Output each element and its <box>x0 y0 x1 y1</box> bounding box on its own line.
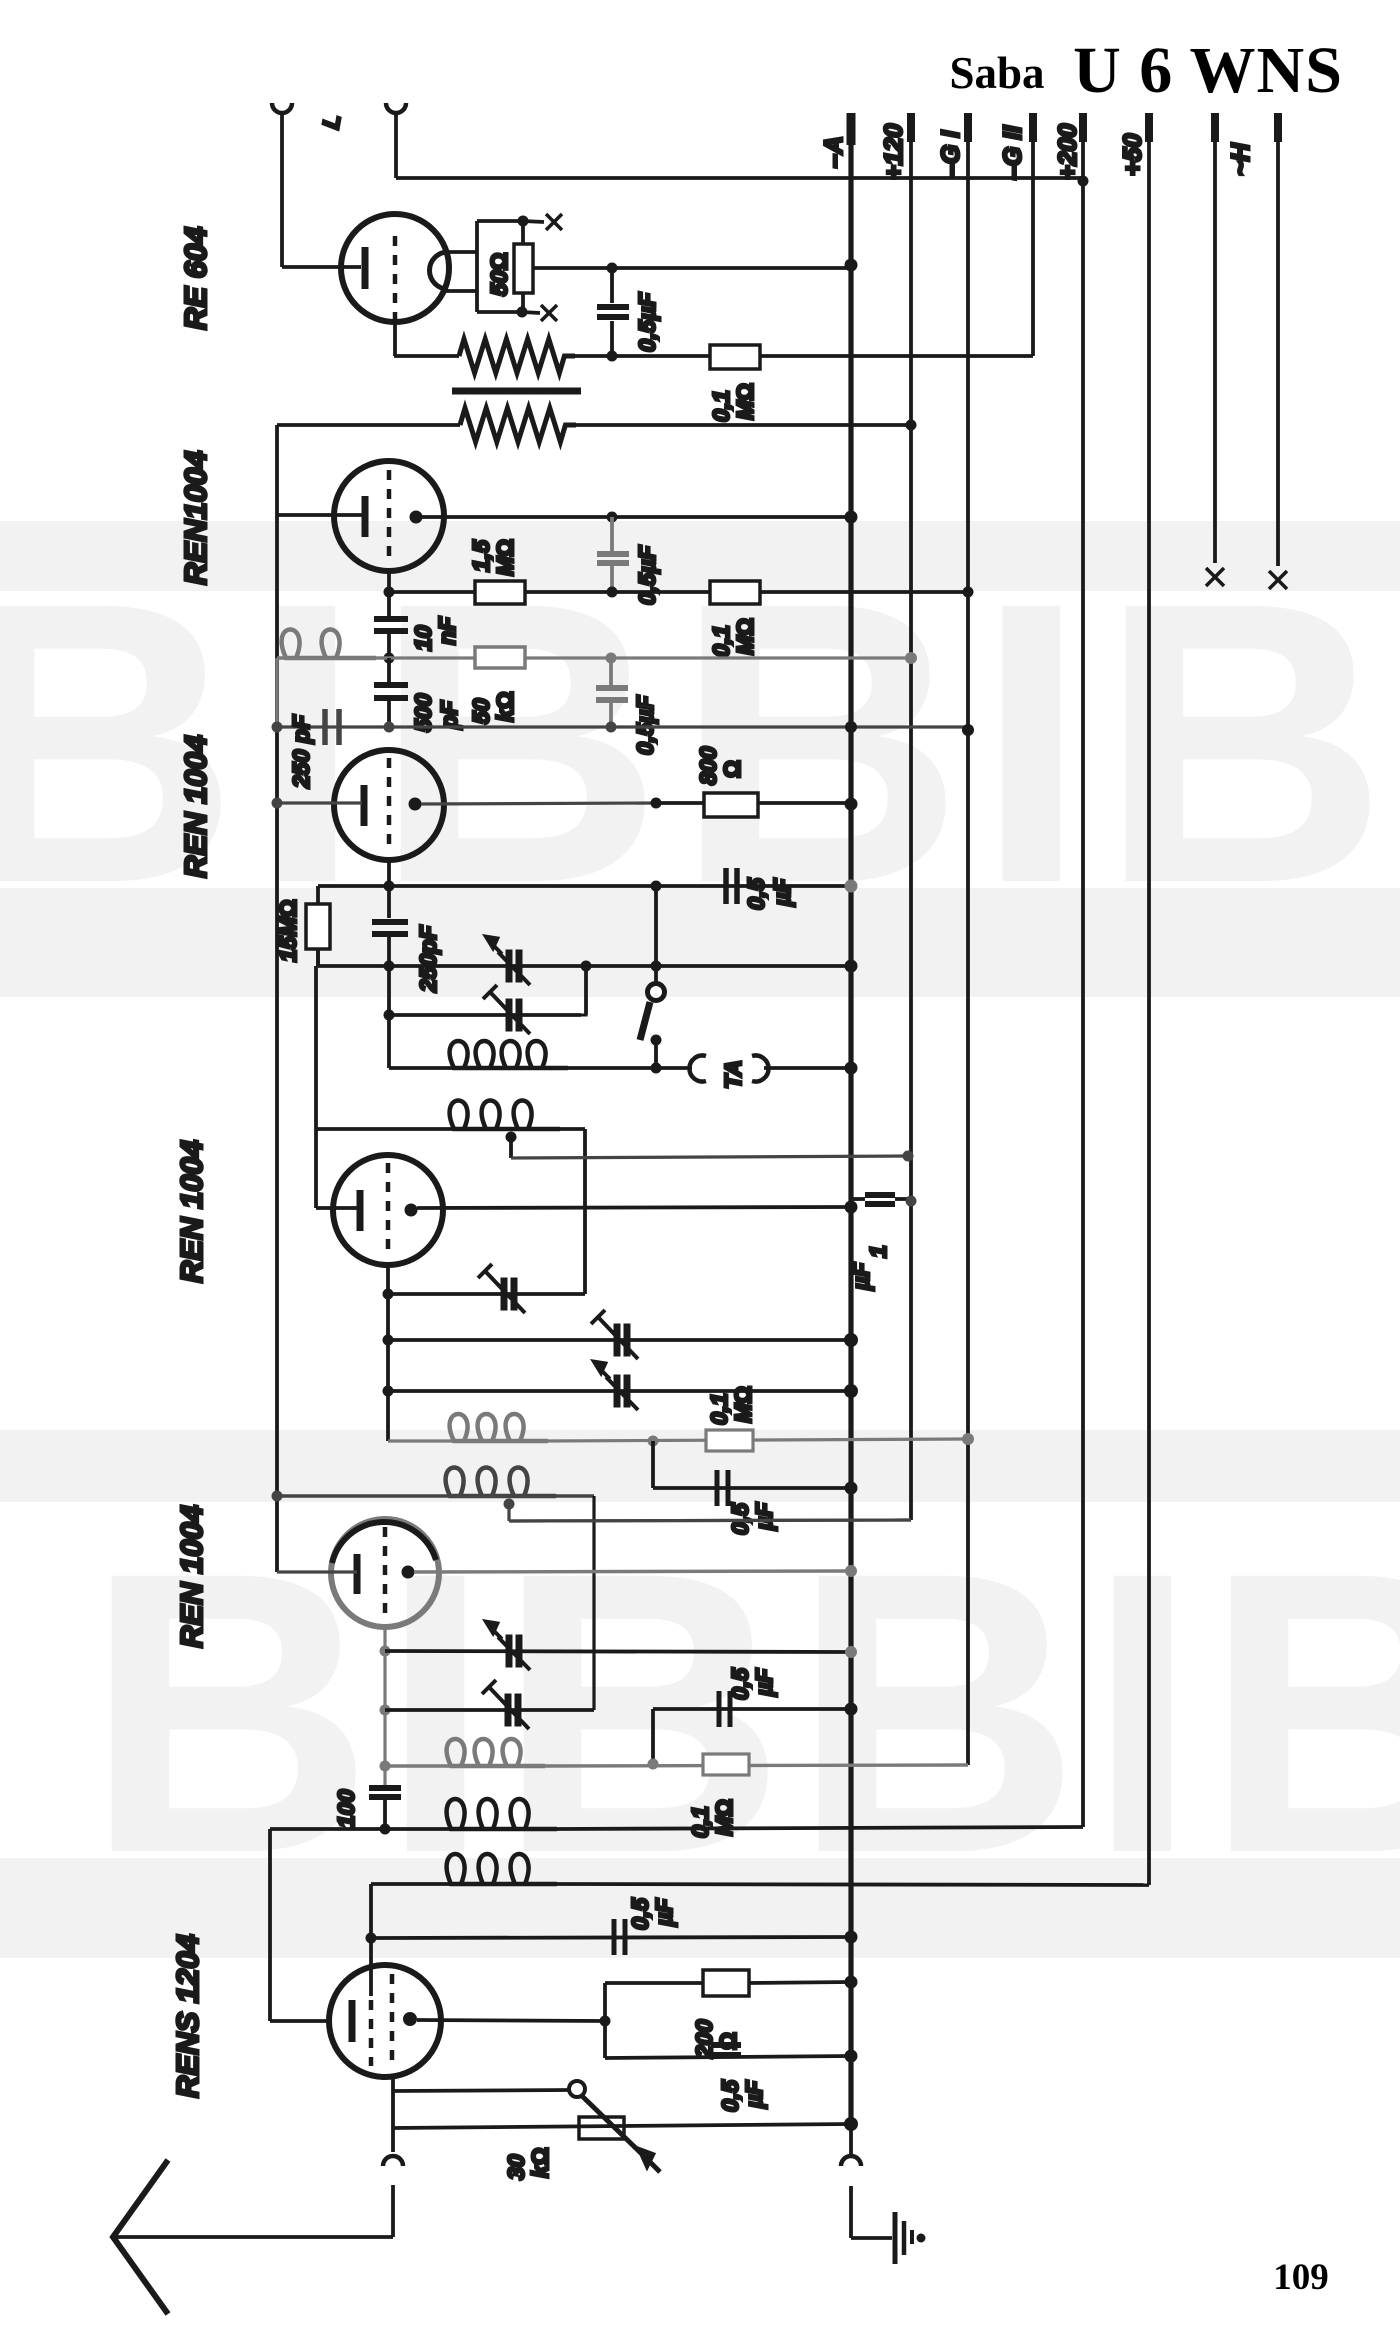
wire anode tube3 <box>421 803 656 804</box>
wiper wire to -A <box>533 266 851 270</box>
heater lead H1 <box>1213 113 1217 563</box>
svg-text:MΩ: MΩ <box>730 1386 756 1423</box>
svg-text:~H: ~H <box>1227 142 1255 176</box>
ground symbol <box>851 2236 892 2240</box>
capacitor 250 pF second <box>387 886 391 918</box>
svg-text:µF: µF <box>769 878 795 907</box>
antenna <box>113 2160 168 2314</box>
terminal x bottom <box>522 312 540 313</box>
wire anode RENS <box>417 2020 605 2021</box>
svg-text:0,5: 0,5 <box>727 1667 753 1700</box>
svg-text:µF: µF <box>848 1262 874 1291</box>
left bus wire <box>275 425 279 1572</box>
svg-text:µF: µF <box>751 1668 777 1697</box>
svg-text:1,5: 1,5 <box>468 539 494 572</box>
WATERMARK <box>0 519 1400 1958</box>
potentiometer 50 Ohm <box>514 244 533 293</box>
svg-text:50Ω: 50Ω <box>486 253 512 296</box>
wire grid RENS <box>270 2019 330 2023</box>
tube5 stem <box>383 1625 386 1788</box>
svg-text:RE 604: RE 604 <box>178 227 213 330</box>
wire 1391 row <box>388 1389 851 1393</box>
svg-text:0,1: 0,1 <box>706 1393 732 1425</box>
coil L5 AVC row 2 <box>385 1764 461 1767</box>
svg-text:kΩ: kΩ <box>527 2148 553 2178</box>
wire 0,1MOhm row to -GII <box>612 354 1033 358</box>
svg-text:MΩ: MΩ <box>732 383 758 420</box>
svg-text:10: 10 <box>410 625 436 651</box>
trimmer capacitor t7 <box>505 1694 512 1727</box>
svg-text:800: 800 <box>695 746 721 785</box>
tube REN 1004 no4 <box>333 1155 443 1265</box>
vertical 15M to grid tube4 <box>316 949 320 966</box>
loudspeaker terminal 2 <box>386 103 406 113</box>
svg-text:U 6 WNS: U 6 WNS <box>1073 34 1343 107</box>
left drop to grid RENS <box>268 1829 272 2021</box>
wire grid tube2 <box>277 513 362 517</box>
wire padder row <box>387 966 391 1068</box>
tube RE604 cathode stem <box>393 322 397 356</box>
capacitor 10 nF <box>387 592 391 616</box>
svg-text:µF: µF <box>651 1898 677 1927</box>
wire pot row to -A bottom <box>393 2124 851 2128</box>
svg-text:15MΩ: 15MΩ <box>275 900 301 962</box>
wire anode tube4 to -A <box>417 1207 851 1208</box>
screen stem RENS <box>369 1884 373 1996</box>
coil L2 with tap <box>316 1127 464 1131</box>
bus rail -GI <box>966 113 970 1765</box>
capacitor 0,5uF c8 <box>605 2056 851 2058</box>
wire 50k row to +120 <box>384 653 395 664</box>
svg-text:kΩ: kΩ <box>492 692 518 722</box>
capacitor 250 pF <box>322 709 328 745</box>
wire grid tube3 <box>277 801 362 804</box>
tap wire to +120 chain <box>511 1156 911 1158</box>
antenna terminal <box>383 2156 403 2166</box>
bus rail -GII <box>1031 113 1035 356</box>
capacitor 0,5uF c2 <box>597 551 629 557</box>
tube REN 1004 no3 <box>334 750 444 860</box>
svg-text:50: 50 <box>468 698 494 724</box>
svg-text:MΩ: MΩ <box>711 1799 737 1836</box>
grid return row to -GI <box>277 725 968 728</box>
svg-text:0,1: 0,1 <box>687 1806 713 1838</box>
capacitor 1uF <box>865 1192 895 1198</box>
antenna coil top <box>282 630 376 659</box>
trimmer capacitor t3 <box>501 1278 508 1311</box>
switch <box>648 984 665 1001</box>
svg-text:µF: µF <box>751 1502 777 1531</box>
svg-text:Ω: Ω <box>719 760 745 778</box>
cathode bracket <box>603 1983 607 2058</box>
wire 1294 row <box>388 1292 585 1296</box>
wire +200 row with coil L6 <box>270 1827 461 1831</box>
tube REN 1004 no5 <box>331 1519 439 1627</box>
svg-text:30: 30 <box>503 2154 529 2180</box>
svg-text:0,5µF: 0,5µF <box>634 292 660 352</box>
bus rail +120 <box>909 113 913 1520</box>
tap wire to +120 elbow <box>509 1520 911 1521</box>
svg-text:250 pF: 250 pF <box>288 714 314 789</box>
svg-text:nF: nF <box>434 616 460 645</box>
capacitor 0,5uF c7 <box>612 1919 617 1955</box>
coil L7 row to +50 <box>371 1882 461 1886</box>
svg-text:0,5µF: 0,5µF <box>634 545 660 605</box>
cathode stem RENS <box>391 2075 395 2152</box>
svg-text:REN 1004: REN 1004 <box>174 1505 209 1648</box>
svg-text:+200: +200 <box>1054 124 1082 180</box>
resistor 0,1 MOhm third <box>706 1430 753 1451</box>
wire to volume pot <box>393 2090 569 2091</box>
capacitor 0,5uF c4 <box>723 868 729 904</box>
svg-text:MΩ: MΩ <box>732 618 758 655</box>
transformer core bar <box>452 388 581 395</box>
svg-text:0,1: 0,1 <box>708 390 734 422</box>
coil L4 with tap <box>272 1491 283 1502</box>
loudspeaker terminal 1 <box>272 103 292 113</box>
tube4 stem <box>386 1265 390 1441</box>
trimmer capacitor t6 <box>506 1635 513 1668</box>
bus rail +50 <box>1147 113 1151 1885</box>
capacitor 0,5uF c3 <box>596 685 628 691</box>
svg-text:109: 109 <box>1273 2257 1329 2298</box>
wire 15MOhm branch <box>318 884 389 888</box>
capacitor 0,5uF c5 <box>651 1441 655 1488</box>
terminal x top <box>523 221 544 222</box>
resistor 0,1 MOhm fourth <box>703 1754 749 1775</box>
ground terminal <box>841 2156 861 2166</box>
trimmer capacitor t2 <box>506 999 513 1032</box>
bus rail -A <box>848 113 853 2124</box>
resistor zigzag primary <box>394 354 459 358</box>
wire grid tube5 <box>277 1570 357 1573</box>
TITLE <box>949 34 1342 2298</box>
svg-text:TA: TA <box>720 1060 746 1089</box>
wire 1651 row <box>385 1651 851 1652</box>
resistor 15 MOhm <box>306 904 330 949</box>
anode leads RE604 <box>446 250 477 254</box>
wire speaker to +200 <box>396 176 1083 180</box>
svg-text:0,5: 0,5 <box>727 1502 753 1535</box>
svg-text:+120: +120 <box>880 124 908 180</box>
svg-text:–G II: –G II <box>999 125 1027 180</box>
heater lead H2 <box>1276 113 1280 566</box>
svg-text:µF: µF <box>741 2080 767 2109</box>
tube3 stem <box>387 858 391 886</box>
tube RENS 1204 <box>329 1965 441 2077</box>
wire cathode row tube3 <box>389 884 851 888</box>
svg-text:0,5µF: 0,5µF <box>632 695 658 755</box>
capacitor 100 pF <box>369 1785 401 1791</box>
resistor 0,1 MOhm second <box>710 581 760 604</box>
tube RE 604 <box>341 214 449 322</box>
svg-text:0,5: 0,5 <box>743 877 769 910</box>
bus rail +200 <box>1081 113 1085 1827</box>
pickup jack TA <box>689 1056 706 1082</box>
potentiometer 30 kOhm <box>579 2117 624 2139</box>
svg-text:RENS 1204: RENS 1204 <box>170 1934 205 2098</box>
resistor 1,5 MOhm <box>475 581 525 604</box>
svg-text:REN 1004: REN 1004 <box>174 1140 209 1283</box>
resistor zigzag secondary <box>277 423 460 427</box>
oscillator coil L1 <box>389 1066 464 1070</box>
coil L3 AVC row <box>388 1439 464 1442</box>
svg-text:250pF: 250pF <box>415 925 441 993</box>
svg-text:1: 1 <box>865 1245 891 1258</box>
tube2 stem <box>387 571 391 592</box>
svg-text:–G I: –G I <box>937 130 965 178</box>
trimmer capacitor t5 <box>614 1375 621 1408</box>
wire grid-leak row to -GI <box>389 590 968 594</box>
resistor 50 kOhm <box>475 647 525 668</box>
wire cathode return row <box>316 949 320 966</box>
wire 1340 row <box>388 1338 851 1342</box>
svg-text:0,5: 0,5 <box>627 1897 653 1930</box>
svg-text:Saba: Saba <box>949 48 1044 98</box>
svg-text:0,5: 0,5 <box>717 2079 743 2112</box>
svg-text:–A: –A <box>820 136 848 168</box>
svg-text:100: 100 <box>333 1789 359 1828</box>
wire anode tube5 to -A <box>414 1571 851 1572</box>
wire grid tube4 <box>316 1206 360 1210</box>
svg-text:0,1: 0,1 <box>708 625 734 657</box>
capacitor 0,5uF c6 <box>651 1709 655 1764</box>
tube REN1004 no2 <box>334 461 444 571</box>
capacitor 500 pF <box>387 658 391 682</box>
trimmer capacitor t4 <box>614 1324 621 1357</box>
resistor 800 Ohm <box>656 801 704 805</box>
wire anode tube2 to -A <box>422 515 851 519</box>
wire grid RE604 <box>282 265 361 269</box>
resistor 200 Ohm <box>605 1981 703 1985</box>
svg-text:BIBBIB: BIBBIB <box>85 1489 1400 1936</box>
trimmer capacitor t1 <box>506 950 513 983</box>
svg-text:+50: +50 <box>1119 133 1147 176</box>
svg-text:REN 1004: REN 1004 <box>178 735 213 878</box>
wire screen bypass row <box>371 1937 851 1938</box>
wire 1710 row left <box>385 1708 594 1712</box>
svg-text:REN1004: REN1004 <box>178 451 213 585</box>
resistor 0,1 MOhm top <box>710 345 760 369</box>
svg-text:MΩ: MΩ <box>492 539 518 576</box>
capacitor 0,5uF c1 <box>597 304 629 310</box>
